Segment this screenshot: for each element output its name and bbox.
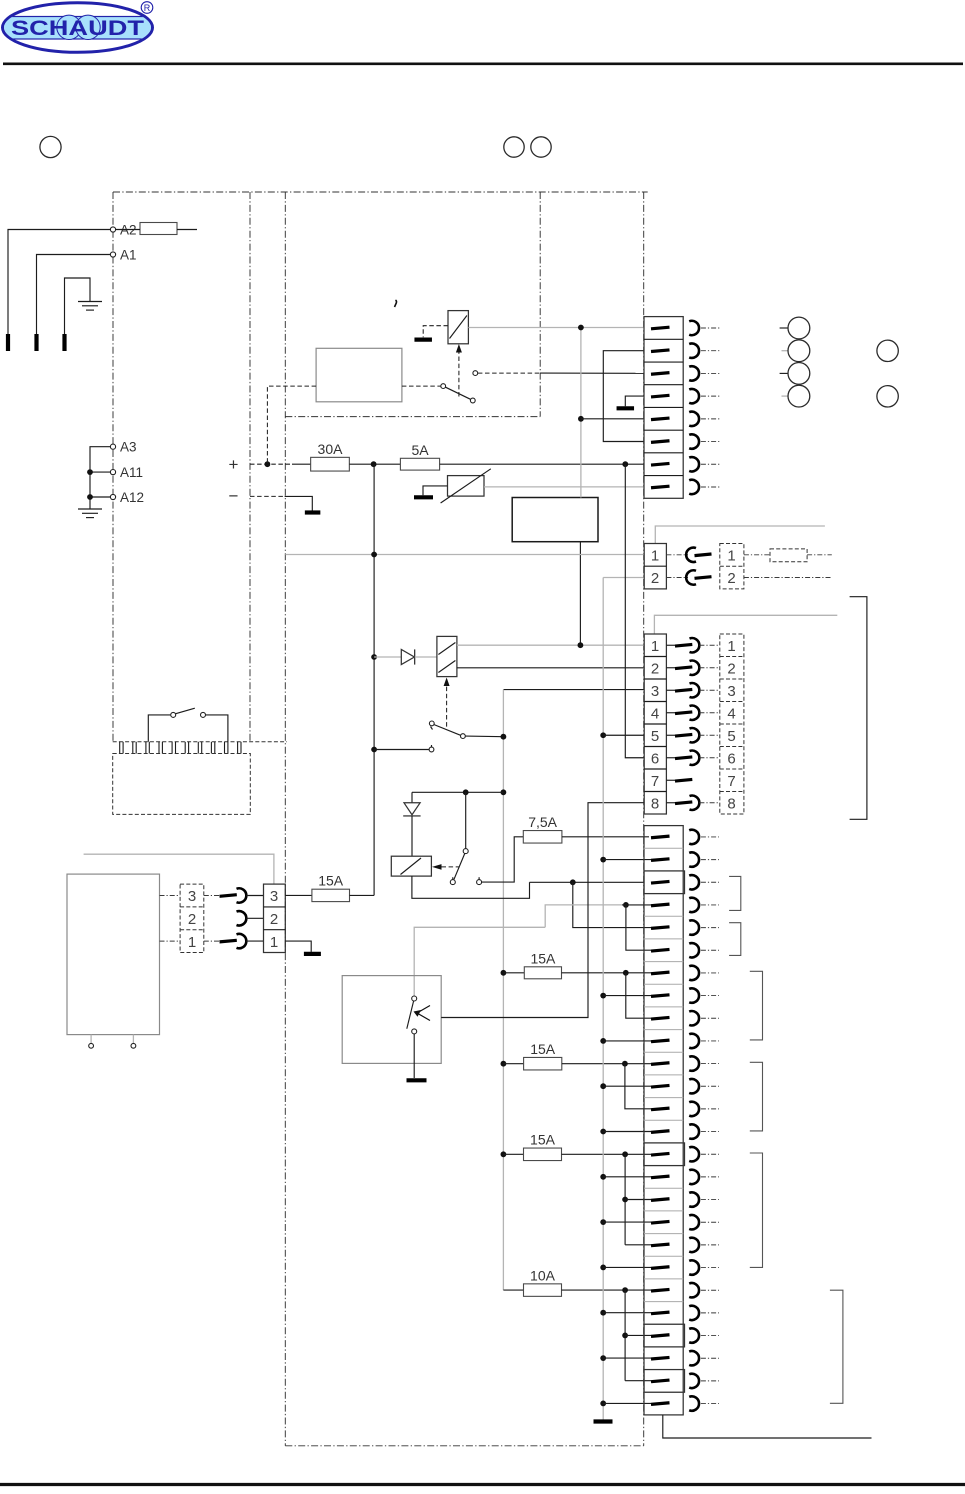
connector X3 socket 6	[690, 751, 700, 765]
connector X3 lead 1	[699, 644, 719, 646]
stray comma mark	[395, 300, 397, 307]
bracket pins 5-6	[729, 923, 741, 956]
svg-text:15A: 15A	[530, 1132, 556, 1148]
bracket group X3	[850, 597, 867, 820]
wire to block E pin17	[625, 1199, 651, 1201]
wire plus dashed segment	[250, 463, 292, 465]
control panel switch	[148, 715, 170, 742]
block E lead 8	[701, 995, 719, 997]
earth ground symbol lower left	[78, 508, 102, 510]
block E pin 5	[651, 927, 670, 929]
block E pin 7	[651, 972, 670, 974]
block A lead 2	[701, 350, 721, 352]
junction rail diode D2	[371, 654, 377, 660]
wire battery switch to chassis	[413, 1034, 415, 1078]
battery lead bar 2	[34, 334, 38, 351]
terminal block E outline	[644, 826, 683, 1415]
block A socket 8	[689, 480, 699, 494]
block E lead 20	[701, 1267, 719, 1269]
block E socket 22	[689, 1306, 699, 1320]
wire link down to pin19	[624, 1154, 626, 1245]
connector X3 pin 6 plug	[666, 757, 675, 759]
junction and wire to block E pin8	[600, 993, 606, 999]
connector X2 plug housing dashed	[720, 544, 744, 589]
bracket pins 21-26	[830, 1290, 843, 1403]
block A pin 3	[651, 373, 670, 375]
indicator lamp L1	[780, 327, 788, 329]
block E lead 24	[701, 1357, 719, 1359]
block A socket 2	[689, 344, 699, 358]
junction A12	[87, 494, 93, 500]
junction plus relay branch	[265, 461, 271, 467]
block A pin 2	[651, 350, 670, 352]
wire plus rail to block A pin7	[440, 463, 644, 465]
junction rail relay contact	[371, 747, 377, 753]
wire varistor to chassis	[423, 486, 448, 495]
block E lead 4	[701, 904, 719, 906]
block A socket 4	[689, 389, 699, 403]
block E pin 20	[651, 1267, 670, 1269]
block A lead 1	[701, 327, 721, 329]
block E lead 19	[701, 1244, 719, 1246]
terminal block E divider	[644, 1278, 683, 1280]
wire minus to chassis	[285, 496, 313, 510]
svg-text:30A: 30A	[318, 441, 344, 457]
block E pin 12	[651, 1085, 670, 1087]
block A socket 6	[689, 434, 699, 448]
connector X3 divider	[644, 723, 666, 725]
indicator lamp L6	[877, 386, 898, 407]
block E pin 9	[651, 1017, 670, 1019]
svg-text:4: 4	[651, 705, 659, 722]
terminal A1 circle and label	[110, 252, 115, 257]
connector X2 pin1 socket and plug	[666, 554, 688, 556]
block E pin 16	[651, 1176, 670, 1178]
junction A11	[87, 469, 93, 475]
terminal block E divider	[644, 1210, 683, 1212]
block E socket 1	[689, 830, 699, 844]
wire 15A-2 to block E pin11	[562, 1063, 651, 1065]
terminal A2 circle and label	[110, 227, 115, 232]
terminal block E group frame pin3	[644, 871, 685, 894]
junction and wire to block E pin12	[600, 1083, 606, 1089]
junction and wire to block C pin5	[600, 732, 606, 738]
terminal block E divider	[644, 1369, 683, 1371]
wire block A pin2-pin6 loop	[603, 351, 644, 442]
relay K2 coil	[437, 636, 457, 676]
block A pin 7	[651, 463, 670, 465]
charger unit box	[512, 498, 598, 542]
actuation arrow K2 to S2	[446, 680, 448, 730]
block E socket 4	[689, 898, 699, 912]
wire lower contact to rail	[374, 749, 429, 751]
block E pin 23	[651, 1335, 670, 1337]
block E socket 11	[689, 1056, 699, 1070]
block E pin 14	[651, 1131, 670, 1133]
terminal block E divider	[644, 1165, 683, 1167]
wire charger output down	[579, 542, 581, 646]
terminal block A divider	[644, 452, 683, 454]
terminal block E divider	[644, 1301, 683, 1303]
block E lead 12	[701, 1085, 719, 1087]
block E pin 24	[651, 1357, 670, 1359]
terminal block E divider	[644, 1051, 683, 1053]
wire load bus corner to block C pin3	[503, 689, 644, 691]
svg-text:10A: 10A	[530, 1267, 556, 1283]
junction and wire to block E pin24	[600, 1355, 606, 1361]
wire X2 pin2 lead	[744, 577, 831, 579]
junction charger output blockC pin1	[578, 642, 584, 648]
svg-text:3: 3	[188, 888, 196, 905]
block E pin 25	[651, 1380, 670, 1382]
block E socket 15	[689, 1147, 699, 1161]
fuse 5A	[400, 458, 439, 470]
terminal block A outline	[644, 317, 683, 499]
block A lead 5	[701, 418, 721, 420]
terminal block E divider	[644, 1233, 683, 1235]
svg-text:R: R	[144, 3, 151, 13]
connector X4 plug housing dashed	[180, 884, 204, 952]
terminal block E group frame pin15	[644, 1143, 685, 1166]
connector X2 terminal block	[644, 544, 666, 589]
control panel dashed rail	[113, 741, 287, 743]
svg-text:A3: A3	[120, 440, 137, 455]
fuse at A2	[140, 223, 177, 235]
wire 7.5A to block E pin1	[562, 836, 649, 838]
block A lead 8	[701, 486, 721, 488]
fuse 15A second	[503, 1063, 523, 1065]
chassis ground at K1	[423, 326, 448, 338]
battery switch box	[342, 976, 441, 1064]
wire rail to block B pin1 gray	[285, 554, 644, 556]
terminal block A divider	[644, 361, 683, 363]
connector X3 pin 7 plug	[666, 779, 675, 781]
connector X4 pin2 socket	[237, 911, 247, 925]
block E lead 9	[701, 1017, 719, 1019]
svg-text:SCHAUDT: SCHAUDT	[11, 17, 144, 40]
block E lead 5	[701, 927, 719, 929]
block E socket 10	[689, 1034, 699, 1048]
footer rule	[0, 1483, 965, 1486]
connector X3 pin 2 plug	[666, 667, 675, 669]
terminal block A divider	[644, 384, 683, 386]
wire A2 to battery lead	[8, 230, 110, 335]
enclosure border right	[643, 192, 645, 1446]
wire X4 pin3 to fuse 15A	[285, 894, 312, 896]
svg-text:7: 7	[727, 773, 735, 790]
block E socket 25	[689, 1374, 699, 1388]
indicator lamp L3	[780, 372, 788, 374]
terminal block E divider	[644, 870, 683, 872]
terminal block E divider	[644, 1006, 683, 1008]
wire gray to battery switch box	[414, 927, 545, 996]
block E lead 14	[701, 1131, 719, 1133]
wire link to block E pin6	[626, 905, 651, 950]
block E lead 11	[701, 1063, 719, 1065]
block E lead 3	[701, 881, 719, 883]
block E socket 24	[689, 1351, 699, 1365]
header rule	[3, 62, 963, 65]
chassis ground minus	[305, 510, 321, 514]
connector X3 divider	[644, 768, 666, 770]
block E lead 2	[701, 859, 719, 861]
terminal block E divider	[644, 847, 683, 849]
block E pin 22	[651, 1312, 670, 1314]
block E pin 26	[651, 1403, 670, 1405]
svg-text:5: 5	[651, 728, 659, 745]
block A socket 5	[689, 412, 699, 426]
varistor R2	[448, 476, 485, 497]
terminal block E divider	[644, 938, 683, 940]
connector X3 pin 3 plug	[666, 689, 675, 691]
terminal A3 circle and label	[110, 444, 115, 449]
relay compartment border bottom	[285, 416, 540, 418]
connector X3 socket 4	[690, 706, 700, 720]
connector X3 plug housing dashed	[720, 634, 744, 814]
block E lead 25	[701, 1380, 719, 1382]
block E lead 1	[701, 836, 719, 838]
terminal block A divider	[644, 338, 683, 340]
svg-text:5A: 5A	[411, 442, 429, 458]
connector X3 divider	[644, 656, 666, 658]
fuse 15A first	[503, 972, 524, 974]
wire minus dashed segment	[250, 495, 285, 497]
junction and wire to block E pin22	[600, 1310, 606, 1316]
wire S2 to bus x503	[466, 735, 504, 738]
connector X3 socket 5	[690, 728, 700, 742]
connector X4 dashed wire pin3	[160, 895, 181, 897]
connector X3 divider	[644, 791, 666, 793]
connector X3 socket 1	[690, 638, 700, 652]
junction K3 switch	[463, 789, 469, 795]
block E socket 17	[689, 1192, 699, 1206]
connector X3 socket 3	[690, 683, 700, 697]
wire link to block E pin9	[626, 973, 651, 1018]
block E lead 15	[701, 1153, 719, 1155]
terminal A11 circle and label	[110, 470, 115, 475]
wire to block E pin25	[625, 1380, 651, 1382]
bracket pins 7-10	[750, 971, 763, 1040]
wire block A pin4 to chassis	[625, 396, 644, 406]
svg-text:2: 2	[270, 911, 278, 928]
terminal block A divider	[644, 406, 683, 408]
bracket pins 15-20	[750, 1153, 763, 1267]
block E lead 23	[701, 1335, 719, 1337]
connector X3 lead 5	[699, 734, 719, 736]
terminal block E group frame pin25	[644, 1370, 685, 1393]
svg-text:15A: 15A	[318, 873, 344, 889]
fuse 7.5A	[523, 831, 562, 844]
wire A2 to fuse	[116, 229, 140, 231]
wire 15A-3 to block E pin15	[562, 1153, 652, 1155]
wire link to block E pin13	[625, 1064, 651, 1109]
terminal block E divider	[644, 1142, 683, 1144]
fuse 30A	[311, 457, 350, 471]
block A socket 7	[689, 457, 699, 471]
junction on lamp rail	[578, 325, 584, 331]
terminal block E divider	[644, 961, 683, 963]
chassis ground at bus bottom	[594, 1419, 613, 1423]
terminal block E divider	[644, 915, 683, 917]
battery lead bar 3	[62, 334, 66, 351]
terminal block E divider	[644, 1391, 683, 1393]
connector X3 lead 2	[699, 667, 719, 669]
wire plus rail to block C pin6	[625, 464, 644, 758]
junction and wire to block E pin2	[600, 857, 606, 863]
block A pin 6	[651, 441, 670, 443]
solar regulator lead 1	[90, 1035, 92, 1044]
svg-text:4: 4	[727, 705, 735, 722]
switch S3 output contact	[477, 880, 482, 885]
block E socket 6	[689, 943, 699, 957]
junction fuse 15A-2	[501, 1061, 507, 1067]
fuse 15A third	[503, 1153, 523, 1155]
wire to block E pin23	[625, 1334, 651, 1336]
block E pin 11	[651, 1063, 670, 1065]
block A lead 7	[701, 463, 721, 465]
connector X2 pin2 socket and plug	[666, 577, 688, 579]
enclosure border bottom	[285, 1445, 643, 1447]
wire battery rail vertical x374	[373, 464, 375, 895]
block A pin 1	[651, 327, 670, 329]
connector X3 lead 6	[699, 757, 719, 759]
wire A11 to bus	[90, 471, 110, 473]
connector X3 pin 5 plug	[666, 734, 675, 736]
load resistor dashed	[744, 554, 770, 556]
wire 30A to 5A	[349, 463, 400, 465]
relay K3 coil	[391, 856, 431, 876]
wire antenna feed gray	[84, 854, 274, 884]
junction fuse 15A-3	[501, 1151, 507, 1157]
svg-text:15A: 15A	[530, 950, 556, 966]
bracket pins 11-14	[750, 1062, 763, 1131]
svg-text:1: 1	[651, 638, 659, 655]
junction plus rail x625	[622, 461, 628, 467]
dashed wire S1 to border	[478, 372, 540, 374]
wire to block A pin5	[581, 418, 644, 420]
block E pin 21	[651, 1289, 670, 1291]
connector X3 socket 2	[690, 661, 700, 675]
junction link pin9	[623, 970, 629, 976]
wire fuse to battery rail	[350, 894, 375, 896]
dashed wire control box to plus node	[267, 386, 316, 464]
block E socket 2	[689, 852, 699, 866]
block E pin 4	[651, 904, 670, 906]
connector X3 terminal block	[644, 634, 666, 814]
svg-text:6: 6	[651, 750, 659, 767]
connector X3 lead 3	[699, 689, 719, 691]
connector X3 divider	[644, 701, 666, 703]
block A pin 4	[651, 395, 670, 397]
terminal block A divider	[644, 475, 683, 477]
junction link pin13	[622, 1061, 628, 1067]
junction and wire to block E pin14	[600, 1129, 606, 1135]
connector X3 divider	[644, 746, 666, 748]
terminal block E divider	[644, 893, 683, 895]
wire to block E pin19	[625, 1244, 651, 1246]
wire gray lamp-rail junction down to charger	[580, 328, 582, 498]
block E pin 15	[651, 1153, 670, 1155]
svg-text:2: 2	[188, 911, 196, 928]
actuation arrow K3	[432, 864, 442, 870]
indicator lamp L2	[782, 350, 789, 352]
block E lead 18	[701, 1221, 719, 1223]
wire 10A to block E pin21	[562, 1289, 652, 1291]
block E pin 18	[651, 1221, 670, 1223]
wire ground bus vertical x603	[602, 578, 604, 1420]
block E socket 9	[689, 1011, 699, 1025]
wire block E output bottom	[663, 1415, 872, 1438]
block E lead 21	[701, 1289, 719, 1291]
svg-text:1: 1	[727, 638, 735, 655]
block E pin 10	[651, 1040, 670, 1042]
wire S3 to fuse 7.5A	[482, 837, 524, 882]
earth ground symbol upper left	[78, 301, 102, 303]
wire link to block E pin5	[573, 882, 651, 927]
enclosure border top	[113, 191, 648, 193]
svg-text:1: 1	[727, 547, 735, 564]
diode D2	[374, 656, 401, 658]
svg-text:3: 3	[651, 683, 659, 700]
fuse 15A solar	[312, 889, 350, 901]
wire block C pin1 aerial link	[654, 615, 837, 634]
svg-text:15A: 15A	[530, 1041, 556, 1057]
svg-text:2: 2	[727, 570, 735, 587]
switch S2 contacts	[429, 721, 434, 726]
junction pin23	[622, 1333, 628, 1339]
terminal block A divider	[644, 429, 683, 431]
control box relay compartment	[316, 348, 402, 402]
wire varistor to block A pin8 gray	[484, 486, 644, 488]
wire A12 to bus	[90, 496, 110, 498]
indicator lamp L5	[877, 340, 898, 361]
block E pin 3	[651, 881, 670, 883]
logo Schaudt	[2, 2, 153, 53]
connector X3 lead 8	[699, 802, 719, 804]
junction and wire to block E pin16	[600, 1174, 606, 1180]
wire to block E pin4	[622, 904, 651, 906]
svg-text:3: 3	[727, 683, 735, 700]
block E pin 13	[651, 1108, 670, 1110]
junction link pins23-25	[622, 1287, 628, 1293]
enclosure border left	[112, 192, 114, 742]
junction block E pin4	[623, 902, 629, 908]
terminal block E divider	[644, 1074, 683, 1076]
dashed wire control box to switch	[402, 385, 441, 387]
wire ground stub lead	[65, 278, 91, 334]
svg-text:2: 2	[727, 660, 735, 677]
junction pin17	[622, 1197, 628, 1203]
junction S2 wire	[501, 734, 507, 740]
svg-text:A12: A12	[120, 490, 144, 505]
junction main bus x374	[371, 461, 377, 467]
terminal block E divider	[644, 1255, 683, 1257]
enclosure border divider x250	[249, 192, 251, 742]
junction and wire to block E pin26	[600, 1401, 606, 1407]
terminal block E divider	[644, 1119, 683, 1121]
block A pin 8	[651, 486, 670, 488]
wire K3 coil bottom to block E pin3	[412, 876, 530, 898]
block E socket 12	[689, 1079, 699, 1093]
block E socket 3	[689, 875, 699, 889]
block E socket 13	[689, 1102, 699, 1116]
svg-text:A1: A1	[120, 248, 137, 263]
svg-text:1: 1	[651, 547, 659, 564]
block E lead 13	[701, 1108, 719, 1110]
block A socket 3	[689, 366, 699, 380]
svg-text:A11: A11	[120, 465, 143, 480]
relay compartment border right	[539, 192, 541, 417]
